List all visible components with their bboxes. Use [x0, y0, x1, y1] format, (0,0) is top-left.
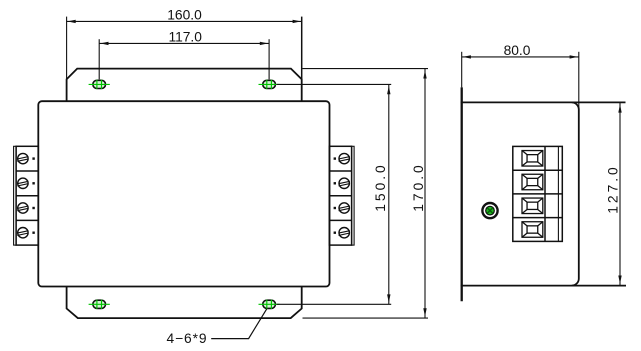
terminal screw 1 (side view)	[522, 151, 543, 167]
svg-text:80.0: 80.0	[504, 43, 531, 58]
svg-text:170.0: 170.0	[411, 165, 426, 212]
mounting hole bottom-left 6x9 slot	[89, 300, 110, 309]
dimension 117.0	[99, 39, 269, 79]
side view body top edge	[461, 101, 626, 103]
svg-text:127.0: 127.0	[605, 167, 620, 214]
dimension 160.0 top	[66, 17, 68, 80]
right terminal block (top view)	[329, 146, 354, 245]
dimension 170.0	[303, 69, 429, 319]
dimension 127.0	[619, 103, 621, 285]
dimension 80.0	[462, 52, 579, 110]
bottom mounting flange	[67, 287, 302, 319]
svg-text:160.0: 160.0	[167, 8, 202, 23]
mounting hole top-right 6x9 slot	[259, 80, 280, 89]
side view body right edge rounded	[572, 102, 579, 285]
terminal screw 2 (side view)	[522, 174, 543, 190]
terminal screw 3 (side view)	[522, 198, 543, 214]
svg-text:117.0: 117.0	[168, 29, 202, 44]
filter body (top view)	[38, 101, 329, 286]
leader 4-6*9	[211, 309, 267, 339]
svg-text:4−6*9: 4−6*9	[167, 331, 207, 346]
svg-text:150.0: 150.0	[373, 165, 388, 212]
terminal screw 4 (side view)	[522, 222, 543, 238]
mounting hole top-left 6x9 slot	[89, 80, 110, 89]
left terminal block (top view)	[14, 146, 39, 245]
side view body bottom edge	[461, 285, 626, 287]
side view mounting plate edge	[461, 87, 463, 301]
top mounting flange	[67, 69, 302, 102]
dimension 150.0	[277, 84, 392, 304]
side view terminal block	[513, 146, 563, 241]
mounting hole bottom-right 6x9 slot	[259, 300, 280, 309]
ground stud (side view)	[482, 203, 497, 218]
